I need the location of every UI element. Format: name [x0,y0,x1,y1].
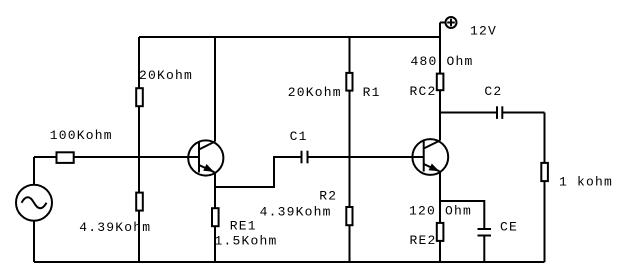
wire CE bottom lead [483,236,485,263]
transistor Q2 [411,139,448,175]
AC source V1 [16,185,52,221]
wire Q1 emitter vertical [214,172,216,262]
wire input line to Q1 base [34,156,199,158]
wire left bias divider vertical [138,37,140,262]
svg-text:12V: 12V [470,24,497,39]
wire top rail Vcc [139,36,440,38]
svg-text:R2: R2 [319,189,337,204]
wire bottom rail ground [34,261,545,263]
resistor 100Kohm (series input) [57,152,74,163]
resistor R2 4.39Kohm [346,207,352,225]
transistor Q1 [187,140,223,175]
wire source bottom lead [33,221,35,263]
svg-text:CE: CE [500,220,518,235]
capacitor CE [478,229,492,236]
resistor RC2 480 Ohm [437,74,444,91]
svg-text:480 Ohm: 480 Ohm [411,54,474,69]
resistor 20Kohm (left bias) [136,88,143,106]
resistor RE1 1.5Kohm [212,208,219,226]
wire supply stub [440,22,446,24]
supply terminal +12V [446,17,457,28]
svg-text:C1: C1 [290,129,308,144]
svg-text:C2: C2 [484,84,502,99]
wire C1 to Q2 base [308,156,424,158]
wire supply to Q2 collector vertical [439,23,441,141]
svg-text:20Kohm: 20Kohm [288,85,342,100]
wire Q2 collector to C2 [440,112,497,114]
wire Q2 emitter vertical [439,172,441,262]
svg-text:120 Ohm: 120 Ohm [409,204,472,219]
resistor 1 kohm load [541,163,548,181]
resistor 4.39Kohm (left bias lower) [136,193,143,211]
wire load branch vertical [544,113,546,263]
svg-text:RE1: RE1 [230,219,257,234]
capacitor C1 [302,151,308,164]
svg-text:1 kohm: 1 kohm [559,175,613,190]
svg-text:RE2: RE2 [410,233,437,248]
wire Q1 emitter branch to C1 [215,157,302,187]
svg-text:1.5Kohm: 1.5Kohm [215,233,278,248]
svg-text:20Kohm: 20Kohm [139,68,193,83]
wire R1 R2 divider vertical [349,37,351,262]
wire Q2 emitter branch to CE [440,201,484,229]
wire source top lead [33,157,35,185]
svg-text:RC2: RC2 [410,84,437,99]
wire Q1 collector vertical [214,37,216,142]
svg-text:4.39Kohm: 4.39Kohm [79,220,151,235]
wire C2 to load [502,112,544,114]
svg-text:4.39Kohm: 4.39Kohm [260,204,332,219]
resistor RE2 120 Ohm [437,223,444,241]
capacitor C2 [497,106,502,119]
svg-text:R1: R1 [363,85,381,100]
resistor R1 20Kohm [346,73,352,91]
svg-text:100Kohm: 100Kohm [50,128,113,143]
